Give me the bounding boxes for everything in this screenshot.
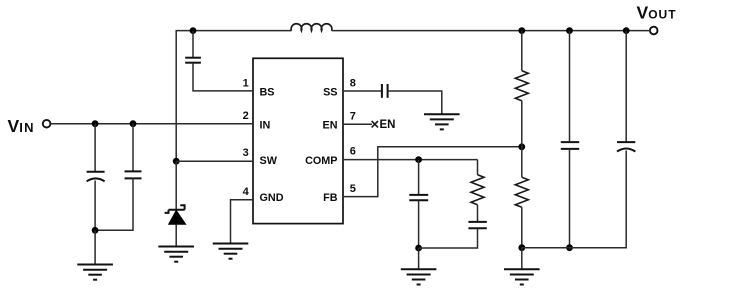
node junction SW — [173, 158, 180, 165]
wire pin 4 GND to ground — [231, 200, 254, 243]
wire diode D1 cathode lead — [175, 161, 177, 210]
ground output — [504, 269, 540, 284]
IC U1 body — [253, 58, 343, 223]
node junction top rail / C3 — [190, 27, 197, 34]
wire C5 bottom lead — [418, 200, 420, 248]
wire R3 to C6 — [477, 205, 479, 222]
wire R1 top lead — [521, 31, 523, 71]
capacitor C1 electrolytic plates — [87, 172, 105, 182]
wire C4 to ground — [388, 91, 442, 114]
svg-text:6: 6 — [350, 146, 356, 158]
node junction output ground — [518, 244, 525, 251]
wire R2 bottom lead — [521, 207, 523, 248]
terminal VIN — [43, 120, 51, 128]
wire C3 top lead — [192, 31, 194, 58]
svg-text:7: 7 — [350, 110, 356, 122]
wire R3 top lead — [477, 160, 479, 175]
node junction C7 bottom — [566, 244, 573, 251]
wire C5 top lead — [418, 160, 420, 195]
ground IC — [213, 244, 249, 259]
inductor L1 — [291, 24, 332, 31]
wire R1 to R2 — [521, 101, 523, 178]
wire SW riser to top rail — [175, 31, 177, 162]
node junction top rail / C8 — [623, 27, 630, 34]
ground soft-start — [424, 114, 460, 129]
wire to input ground — [94, 230, 96, 264]
wire pin 8 SS to C4 — [343, 90, 381, 92]
diode D1 schottky cathode bar — [165, 205, 185, 213]
wire VIN to pin 2 IN — [51, 123, 254, 125]
capacitor C8 electrolytic plates — [617, 142, 635, 152]
svg-text:BS: BS — [260, 87, 275, 99]
svg-text:3: 3 — [243, 147, 249, 159]
resistor R1 — [515, 71, 528, 101]
svg-text:VOUT: VOUT — [637, 3, 677, 23]
svg-text:4: 4 — [243, 186, 250, 198]
wire top rail left of inductor — [176, 30, 292, 32]
capacitor C7 plates — [561, 142, 579, 149]
wire comp node to ground — [418, 248, 420, 269]
capacitor C5 plates — [409, 195, 428, 200]
ground diode — [158, 247, 194, 262]
svg-text:GND: GND — [260, 192, 284, 204]
capacitor C3 bootstrap plates — [185, 58, 201, 63]
svg-text:SS: SS — [323, 87, 337, 99]
node junction VIN/C1 — [92, 120, 99, 127]
svg-text:EN: EN — [380, 119, 396, 131]
wire C7 bottom lead — [569, 149, 571, 248]
wire C8 top lead — [625, 31, 627, 142]
svg-text:5: 5 — [350, 183, 356, 195]
svg-text:1: 1 — [243, 77, 249, 89]
wire C2 bottom lead — [95, 178, 133, 230]
wire bottom output rail — [522, 247, 627, 249]
ground comp — [401, 269, 437, 284]
wire pin 6 COMP to network — [343, 159, 478, 161]
svg-text:IN: IN — [260, 119, 271, 131]
capacitor C6 plates — [468, 222, 486, 228]
node junction VIN/C2 — [130, 120, 137, 127]
wire C1 top lead — [94, 124, 96, 172]
svg-text:EN: EN — [323, 119, 338, 131]
node junction input cap ground — [92, 227, 99, 234]
wire pin 7 EN stub — [343, 123, 372, 125]
resistor R2 — [515, 177, 528, 207]
wire C6 bottom lead — [419, 228, 478, 248]
diode D1 triangle — [169, 210, 186, 224]
svg-text:8: 8 — [350, 77, 356, 89]
node junction FB divider — [518, 143, 525, 150]
node junction top rail / C7 — [566, 27, 573, 34]
capacitor C4 soft-start plates — [382, 84, 388, 98]
wire C1 bottom lead — [94, 181, 96, 231]
wire C2 top lead — [132, 124, 134, 171]
svg-text:SW: SW — [260, 155, 278, 167]
node junction comp ground — [415, 245, 422, 252]
svg-text:2: 2 — [243, 110, 249, 122]
svg-text:COMP: COMP — [305, 155, 337, 167]
no-connect X on EN — [372, 121, 378, 127]
wire C8 bottom lead — [625, 151, 627, 248]
wire output node to ground — [521, 248, 523, 269]
wire diode D1 anode lead — [175, 224, 177, 246]
wire pin 5 FB riser — [343, 147, 522, 197]
svg-text:VIN: VIN — [8, 116, 35, 136]
wire C7 top lead — [569, 31, 571, 142]
svg-text:FB: FB — [323, 192, 338, 204]
resistor R3 — [471, 175, 484, 205]
wire SW node to pin 3 SW — [176, 160, 253, 162]
wire C3 to pin 1 BS — [193, 63, 253, 91]
capacitor C2 plates — [125, 171, 142, 178]
wire top rail right of inductor — [332, 30, 651, 32]
node junction COMP/C5 — [415, 156, 422, 163]
terminal VOUT — [650, 27, 658, 35]
node junction top rail / R1 — [518, 27, 525, 34]
ground input — [77, 265, 113, 280]
